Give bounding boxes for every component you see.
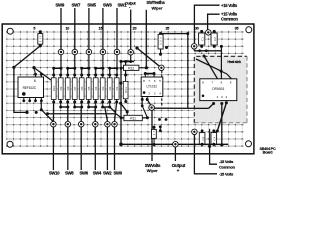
wire SW10 tap: [52, 102, 54, 121]
resistor R14: [38, 30, 43, 47]
svg-text:SW10: SW10: [49, 171, 60, 176]
wire -15 Volts Common: [208, 145, 236, 170]
wire SWTenths Wiper: [146, 0, 165, 67]
svg-text:R13: R13: [124, 87, 128, 93]
wire output bus: [120, 55, 135, 77]
resistor R11: [121, 115, 149, 120]
svg-text:Output: Output: [125, 2, 136, 6]
U3 pin pads below: [212, 101, 228, 105]
U3 wires above: [194, 45, 231, 79]
wire LT1012 pin1 to R11: [141, 100, 148, 118]
wire top bus SW7: [66, 55, 76, 75]
wire SW6 output: [79, 127, 88, 176]
resistor R10: [51, 74, 56, 104]
svg-text:R5: R5: [87, 86, 91, 90]
pad SW10: [51, 121, 57, 127]
wire -15V common feed: [209, 129, 211, 147]
svg-text:6: 6: [34, 79, 36, 83]
svg-text:LT1012: LT1012: [147, 84, 158, 88]
svg-text:5: 5: [33, 26, 35, 30]
wire vertical bus: [119, 67, 123, 146]
svg-text:SW8: SW8: [65, 171, 74, 176]
svg-text:SW7: SW7: [71, 2, 80, 7]
wire top bus SW1: [108, 55, 118, 75]
resistor R13: [123, 75, 128, 103]
svg-text:R10: R10: [52, 85, 56, 91]
pad +15 Volts: [191, 44, 197, 50]
resistor R6: [79, 74, 84, 104]
svg-text:R1: R1: [115, 86, 119, 90]
svg-text:R7: R7: [73, 86, 77, 90]
wire SW0 output: [113, 127, 122, 176]
resistor R5: [86, 74, 91, 104]
wire SW4 output: [93, 127, 102, 176]
resistor R15: [158, 32, 163, 56]
board outline SB404: [2, 24, 254, 154]
pad SW0: [112, 121, 118, 127]
wire +15 Volts: [194, 3, 237, 43]
wire bottom bus SW4: [87, 102, 97, 121]
wire tenths wiper jumper (dashed): [161, 71, 163, 109]
svg-text:R4: R4: [94, 86, 98, 90]
wire OPA501 pin4 to C4: [216, 103, 227, 133]
pad SW1: [114, 49, 120, 55]
wire SW2 output: [103, 127, 112, 176]
capacitor C4: [211, 129, 217, 146]
U2 pin wires: [141, 72, 156, 106]
resistor R8: [65, 74, 70, 104]
wire output to tenths wiper: [135, 46, 161, 67]
svg-text:15: 15: [99, 26, 103, 30]
svg-text:Common: Common: [219, 165, 236, 170]
svg-text:R11: R11: [130, 117, 136, 121]
mounting hole top-left: [7, 28, 13, 34]
wire Output - (top): [125, 2, 136, 50]
pad SW4: [93, 121, 99, 127]
wire REF102 to ladder bus: [14, 67, 38, 114]
resistor R1: [114, 74, 119, 104]
label SB404 PC Board: [260, 147, 276, 155]
capacitor C2: [211, 30, 217, 48]
svg-text:SW9: SW9: [55, 2, 64, 7]
wire LT1012 to OPA501: [154, 104, 213, 109]
capacitor C5: [152, 126, 157, 146]
wire common bus to R11: [46, 112, 121, 117]
op-amp U3 OPA501: [200, 79, 237, 101]
pad SW6: [78, 121, 84, 127]
wire Output + (bottom): [172, 147, 186, 173]
pad SW5: [86, 49, 92, 55]
resistor R9: [58, 74, 63, 104]
svg-text:REF102C: REF102C: [23, 86, 37, 90]
svg-text:R2: R2: [108, 86, 112, 90]
mounting hole top-right: [246, 27, 252, 33]
svg-text:SW6: SW6: [79, 171, 88, 176]
perfboard hole grid: [7, 31, 244, 148]
wire REF102 output to R10: [32, 66, 51, 80]
wire SW7 input: [71, 2, 80, 49]
svg-text:R6: R6: [80, 86, 84, 90]
wire SWVolts Wiper output: [145, 110, 161, 173]
node junctions near C5: [158, 118, 167, 121]
svg-text:SW0: SW0: [113, 171, 122, 176]
mounting hole bottom-right: [246, 141, 252, 147]
svg-text:30: 30: [195, 26, 199, 30]
pad SWTenths wiper: [159, 65, 165, 71]
wire diagonal to R14: [12, 46, 40, 69]
resistor R3: [100, 74, 105, 104]
node via: [165, 46, 168, 49]
svg-text:SW4: SW4: [93, 171, 102, 176]
svg-text:+: +: [177, 168, 180, 173]
wire SW0 tap: [115, 102, 117, 121]
U1 pin leads: [22, 73, 42, 102]
pad Output -: [128, 49, 134, 55]
svg-text:C2: C2: [213, 37, 217, 41]
pad -15 Volts: [192, 129, 198, 135]
resistor R7: [72, 74, 77, 104]
wire SW10 output: [49, 127, 60, 176]
svg-text:R12: R12: [128, 67, 134, 71]
column numbers 5-35: [33, 26, 238, 30]
wire R15 to OPA501 input: [161, 32, 190, 108]
wire OPA501 pin3 to common bus: [220, 104, 223, 147]
svg-text:SW5: SW5: [87, 2, 96, 7]
mounting hole bottom-left: [7, 141, 13, 147]
op-amp U1 REF102C: [18, 77, 44, 98]
op-amp U2 LT1012: [141, 77, 163, 97]
wire SW3 input: [103, 2, 112, 49]
svg-text:SW3: SW3: [103, 2, 112, 7]
svg-text:C3: C3: [201, 136, 205, 140]
svg-text:-15 Volts: -15 Volts: [219, 159, 234, 164]
wire bottom bus SW6: [73, 102, 83, 121]
pad SW7: [72, 49, 78, 55]
svg-text:C1: C1: [201, 37, 205, 41]
pad SWVolts wiper: [149, 105, 155, 111]
svg-text:Wiper: Wiper: [147, 168, 159, 173]
wire top bus SW3: [94, 55, 104, 75]
svg-text:R9: R9: [59, 86, 63, 90]
pad SW3: [100, 49, 106, 55]
pad Output +: [173, 141, 179, 147]
svg-text:-15 Volts: -15 Volts: [219, 171, 234, 176]
svg-text:+15 Volts: +15 Volts: [221, 11, 238, 16]
svg-text:R8: R8: [66, 86, 70, 90]
capacitor C1: [199, 30, 205, 48]
wire SW8 output: [65, 127, 74, 176]
svg-text:Common: Common: [221, 17, 238, 22]
wire +15 Volts Common: [208, 11, 239, 29]
wire bottom bus SW2: [101, 102, 111, 121]
pad SW9: [58, 49, 64, 55]
svg-text:+15 Volts: +15 Volts: [221, 3, 238, 8]
wire top bus SW9: [52, 55, 62, 75]
wire -15 Volts: [194, 135, 234, 177]
svg-text:Heat sink: Heat sink: [227, 60, 241, 64]
wire SW5 input: [87, 2, 96, 49]
pad SW2: [105, 121, 111, 127]
wire REF102 pin4 to SW10: [40, 101, 53, 122]
wire top bus SW5: [80, 55, 90, 75]
wire ladder to R11: [110, 107, 116, 113]
pad SW8: [65, 121, 71, 127]
svg-text:C4: C4: [213, 136, 217, 140]
capacitor C3: [199, 129, 205, 146]
wire bottom common bus: [121, 143, 228, 146]
svg-text:25: 25: [165, 26, 169, 30]
resistor R4: [93, 74, 98, 104]
svg-text:Wiper: Wiper: [151, 5, 163, 10]
node pair right of C5: [159, 125, 162, 132]
svg-text:35: 35: [235, 26, 239, 30]
wire bottom bus SW8: [59, 102, 69, 121]
wire bus to R11 top: [121, 103, 129, 115]
pad +15 Volts Common: [206, 30, 212, 36]
svg-text:OPA501: OPA501: [212, 87, 225, 91]
svg-text:SW2: SW2: [103, 171, 112, 176]
heat sink: [194, 56, 247, 123]
resistor R12: [121, 65, 148, 70]
svg-text:Board: Board: [263, 151, 274, 155]
resistor R2: [107, 74, 112, 104]
svg-text:Output: Output: [172, 163, 186, 168]
wire SW9 input: [55, 2, 64, 49]
svg-text:R3: R3: [101, 86, 105, 90]
svg-text:10: 10: [65, 26, 69, 30]
wire SW1 input: [117, 2, 127, 49]
svg-text:20: 20: [133, 26, 137, 30]
